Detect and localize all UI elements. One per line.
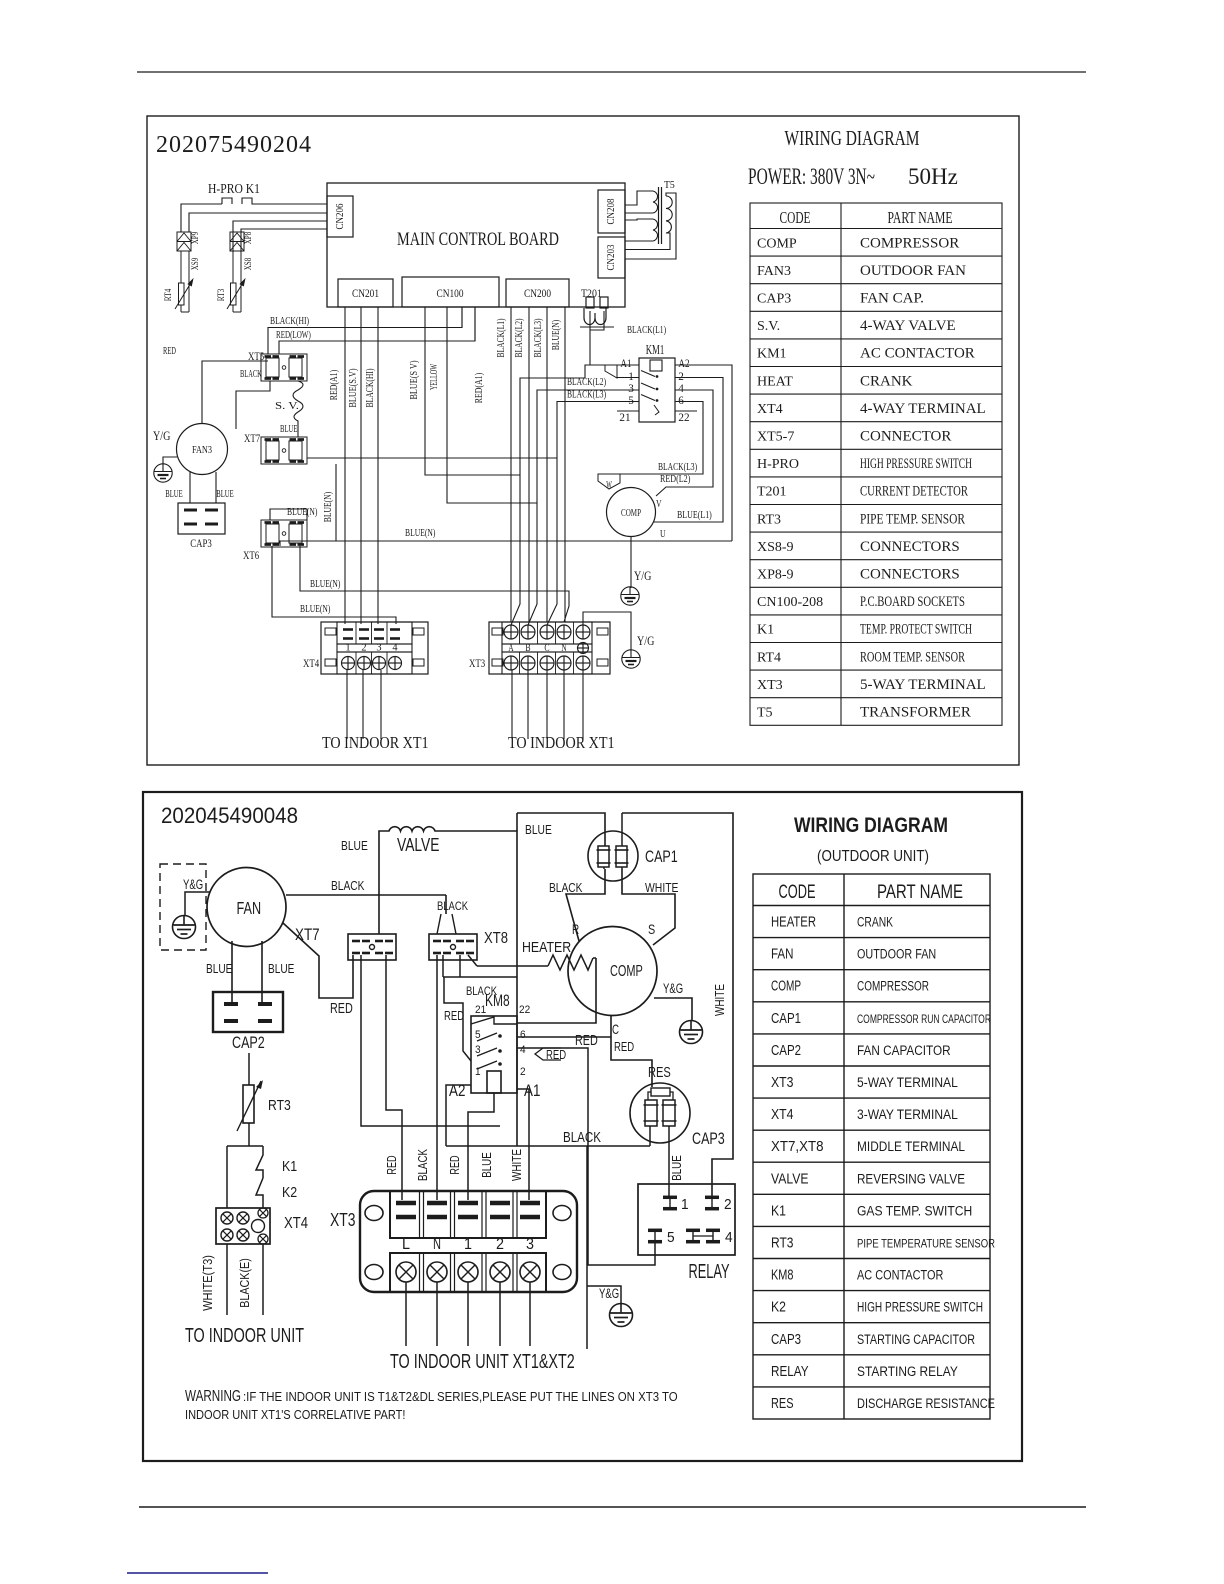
svg-text:RT3: RT3 bbox=[757, 512, 781, 527]
svg-text:BLACK(E): BLACK(E) bbox=[237, 1258, 252, 1308]
svg-text:RT3: RT3 bbox=[268, 1097, 291, 1114]
outer border diagram 1 bbox=[147, 116, 1019, 765]
svg-text:S: S bbox=[648, 921, 655, 937]
svg-text:4-WAY TERMINAL: 4-WAY TERMINAL bbox=[860, 401, 986, 417]
svg-text:HIGH PRESSURE SWITCH: HIGH PRESSURE SWITCH bbox=[860, 456, 972, 472]
svg-text:XS8-9: XS8-9 bbox=[757, 540, 794, 555]
svg-text:TO INDOOR XT1: TO INDOOR XT1 bbox=[322, 733, 429, 752]
svg-text:MIDDLE TERMINAL: MIDDLE TERMINAL bbox=[857, 1139, 965, 1154]
wire relay pin2 WHITE riser bbox=[622, 813, 733, 1197]
main control board bbox=[327, 183, 625, 307]
svg-text:RELAY: RELAY bbox=[771, 1364, 809, 1380]
svg-text:FAN CAP.: FAN CAP. bbox=[860, 291, 924, 307]
svg-text:BLACK: BLACK bbox=[549, 880, 583, 895]
svg-text:CN100: CN100 bbox=[437, 286, 464, 300]
svg-text:WIRING DIAGRAM: WIRING DIAGRAM bbox=[794, 814, 948, 837]
pipe temp sensor RT3 bbox=[231, 283, 237, 305]
bottom rule bbox=[139, 1506, 1086, 1508]
svg-text:RED: RED bbox=[447, 1155, 462, 1174]
svg-text:COMP: COMP bbox=[610, 963, 643, 980]
svg-text:Y/G: Y/G bbox=[637, 633, 654, 648]
svg-text:BLUE(S.V): BLUE(S.V) bbox=[348, 368, 359, 407]
svg-text:RT3: RT3 bbox=[771, 1236, 794, 1252]
svg-text:RES: RES bbox=[648, 1064, 671, 1081]
pipe temp sensor RT3 bbox=[248, 1053, 250, 1085]
P.C. board socket CN208 bbox=[598, 190, 625, 233]
svg-text:3: 3 bbox=[376, 642, 382, 654]
svg-text:WARNING: WARNING bbox=[185, 1388, 241, 1405]
compressor run capacitor CAP1 bbox=[588, 831, 638, 881]
svg-text:FAN3: FAN3 bbox=[192, 444, 212, 456]
svg-text:RED(A1): RED(A1) bbox=[329, 369, 340, 400]
svg-text:C: C bbox=[544, 642, 549, 654]
svg-text:XP8: XP8 bbox=[243, 231, 253, 244]
svg-text:XS8: XS8 bbox=[243, 257, 253, 270]
svg-text:KM1: KM1 bbox=[646, 342, 665, 357]
svg-text:H-PRO K1: H-PRO K1 bbox=[208, 181, 260, 196]
svg-text:XT4: XT4 bbox=[303, 656, 319, 670]
svg-text:BLUE(N): BLUE(N) bbox=[551, 319, 562, 350]
svg-text:COMPRESSOR: COMPRESSOR bbox=[857, 979, 929, 994]
protective earth Y&G dashed box bbox=[160, 864, 206, 950]
svg-text:CAP3: CAP3 bbox=[190, 536, 212, 550]
wire CAP1 top bbox=[517, 813, 605, 846]
svg-text:BLUE: BLUE bbox=[206, 962, 232, 976]
svg-text:CAP2: CAP2 bbox=[771, 1043, 801, 1059]
svg-text:XP9: XP9 bbox=[190, 231, 200, 244]
svg-text:BLACK(HI): BLACK(HI) bbox=[270, 316, 309, 327]
svg-text:KM1: KM1 bbox=[757, 347, 787, 362]
compressor COMP bbox=[607, 488, 656, 537]
svg-text:COMP: COMP bbox=[757, 236, 797, 251]
svg-text:COMPRESSOR RUN CAPACITOR: COMPRESSOR RUN CAPACITOR bbox=[857, 1012, 991, 1026]
svg-text:2: 2 bbox=[724, 1196, 732, 1213]
svg-text:OUTDOOR FAN: OUTDOOR FAN bbox=[860, 263, 966, 279]
svg-text:BLACK: BLACK bbox=[415, 1149, 430, 1181]
svg-text:CONNECTORS: CONNECTORS bbox=[860, 567, 960, 583]
svg-text:2: 2 bbox=[361, 642, 366, 654]
svg-text:RED(A1): RED(A1) bbox=[474, 372, 485, 403]
svg-text:BLUE: BLUE bbox=[268, 962, 294, 976]
svg-text:WHITE: WHITE bbox=[712, 984, 727, 1016]
svg-text:ROOM TEMP. SENSOR: ROOM TEMP. SENSOR bbox=[860, 649, 965, 665]
svg-text:U: U bbox=[660, 528, 666, 540]
svg-text:Y&G: Y&G bbox=[599, 1286, 619, 1301]
svg-text:RED: RED bbox=[163, 346, 176, 357]
svg-text:TO INDOOR UNIT XT1&XT2: TO INDOOR UNIT XT1&XT2 bbox=[390, 1351, 575, 1373]
svg-text:BLUE: BLUE bbox=[216, 489, 233, 500]
svg-text:K1: K1 bbox=[282, 1158, 297, 1175]
svg-text:RED(LOW): RED(LOW) bbox=[276, 330, 311, 341]
svg-text:CURRENT DETECTOR: CURRENT DETECTOR bbox=[860, 484, 968, 500]
svg-text:Y/G: Y/G bbox=[634, 568, 651, 583]
room temp sensor RT4 bbox=[179, 283, 185, 305]
svg-text:INDOOR UNIT XT1'S CORRELATIVE: INDOOR UNIT XT1'S CORRELATIVE PART! bbox=[185, 1407, 406, 1422]
wire T201 leads bbox=[589, 311, 591, 365]
wire valve left to XT7 bbox=[379, 831, 387, 934]
svg-text:FAN: FAN bbox=[771, 947, 794, 963]
svg-text:RED: RED bbox=[384, 1155, 399, 1174]
svg-text:2: 2 bbox=[496, 1236, 504, 1253]
svg-text:RED: RED bbox=[330, 1000, 353, 1017]
svg-text:BLACK(L1): BLACK(L1) bbox=[496, 318, 507, 357]
svg-text:YELLOW: YELLOW bbox=[429, 364, 440, 390]
svg-text:K2: K2 bbox=[282, 1184, 297, 1201]
svg-text:CAP2: CAP2 bbox=[232, 1033, 265, 1052]
svg-text:XT5-7: XT5-7 bbox=[757, 430, 794, 445]
svg-text:5-WAY TERMINAL: 5-WAY TERMINAL bbox=[860, 677, 986, 693]
svg-text:N: N bbox=[561, 642, 566, 654]
svg-text:C: C bbox=[612, 1021, 619, 1037]
svg-text:BLUE: BLUE bbox=[341, 838, 368, 853]
svg-text:K1: K1 bbox=[757, 623, 774, 638]
fan motor FAN3 bbox=[177, 424, 228, 475]
svg-text:4-WAY VALVE: 4-WAY VALVE bbox=[860, 318, 956, 334]
svg-text:PIPE TEMPERATURE SENSOR: PIPE TEMPERATURE SENSOR bbox=[857, 1237, 995, 1251]
svg-text:XS9: XS9 bbox=[190, 257, 200, 270]
svg-text:3-WAY TERMINAL: 3-WAY TERMINAL bbox=[857, 1107, 958, 1122]
svg-text:RT4: RT4 bbox=[163, 288, 173, 301]
svg-text:XT7: XT7 bbox=[295, 925, 320, 944]
svg-text:CN201: CN201 bbox=[352, 286, 379, 300]
connector XP8/XS8 bbox=[233, 221, 327, 252]
svg-text:GAS TEMP. SWITCH: GAS TEMP. SWITCH bbox=[857, 1203, 972, 1218]
svg-text:XT4: XT4 bbox=[771, 1107, 794, 1123]
W terminal flag bbox=[598, 474, 620, 489]
svg-text:3: 3 bbox=[526, 1236, 534, 1253]
wires below XT7 bbox=[361, 955, 500, 1126]
wire XT8 pin4 to heater bbox=[468, 955, 477, 966]
svg-text:CAP1: CAP1 bbox=[771, 1011, 801, 1027]
svg-text:WHITE: WHITE bbox=[645, 880, 679, 895]
parts table 1 bbox=[750, 203, 1002, 725]
svg-text:CRANK: CRANK bbox=[857, 915, 893, 930]
svg-text:REVERSING VALVE: REVERSING VALVE bbox=[857, 1171, 965, 1186]
svg-text:CN206: CN206 bbox=[334, 203, 346, 229]
svg-text:BLACK(L3): BLACK(L3) bbox=[658, 462, 697, 473]
svg-text:50Hz: 50Hz bbox=[908, 164, 958, 189]
svg-text:BLACK(L3): BLACK(L3) bbox=[533, 318, 544, 357]
svg-text:BLACK: BLACK bbox=[563, 1129, 601, 1146]
svg-text:A1: A1 bbox=[620, 356, 631, 370]
svg-text:22: 22 bbox=[519, 1004, 530, 1016]
svg-text:BLUE(N): BLUE(N) bbox=[323, 491, 334, 522]
svg-text:KM8: KM8 bbox=[485, 991, 510, 1010]
svg-text:1: 1 bbox=[681, 1196, 689, 1213]
fan motor FAN bbox=[207, 868, 286, 947]
KM1 right side wires bbox=[675, 365, 732, 541]
wire KM8 A2 to BLACK bbox=[446, 1085, 471, 1146]
svg-text:XT7,XT8: XT7,XT8 bbox=[771, 1139, 824, 1155]
wire T201 to A1 and XT3 A bbox=[511, 365, 639, 625]
svg-text:21: 21 bbox=[475, 1004, 486, 1016]
P.C. board socket CN203 bbox=[598, 237, 625, 278]
svg-text:XT4: XT4 bbox=[757, 402, 783, 417]
svg-text:202075490204: 202075490204 bbox=[156, 132, 312, 158]
svg-text:BLACK: BLACK bbox=[240, 369, 262, 380]
svg-text:COMP: COMP bbox=[771, 979, 801, 995]
svg-text:BLACK: BLACK bbox=[331, 878, 365, 893]
svg-text:22: 22 bbox=[678, 410, 689, 424]
svg-text:TO INDOOR UNIT: TO INDOOR UNIT bbox=[185, 1325, 304, 1347]
footnote blue line bbox=[127, 1572, 268, 1574]
wire KM8 A1 down bbox=[517, 1089, 529, 1200]
svg-text:WHITE(T3): WHITE(T3) bbox=[200, 1255, 215, 1311]
svg-text:T201: T201 bbox=[581, 286, 602, 300]
svg-text:FAN3: FAN3 bbox=[757, 264, 791, 279]
svg-text:BLACK: BLACK bbox=[437, 899, 468, 913]
svg-text:XT8: XT8 bbox=[484, 930, 508, 947]
svg-text:VALVE: VALVE bbox=[771, 1171, 809, 1187]
svg-text:A1: A1 bbox=[524, 1081, 540, 1100]
wire KM8 6 to COMP C bbox=[517, 1036, 611, 1038]
svg-text:5: 5 bbox=[667, 1229, 675, 1246]
svg-text:RED: RED bbox=[614, 1039, 634, 1054]
svg-text:A2: A2 bbox=[678, 356, 689, 370]
svg-text:Y/G: Y/G bbox=[153, 428, 170, 443]
svg-text:PIPE TEMP. SENSOR: PIPE TEMP. SENSOR bbox=[860, 511, 965, 527]
svg-text:BLUE(N): BLUE(N) bbox=[300, 604, 331, 615]
svg-text:BLACK(L3): BLACK(L3) bbox=[567, 390, 606, 401]
svg-text:2: 2 bbox=[520, 1066, 526, 1078]
P.C. board socket CN200 bbox=[506, 279, 569, 307]
svg-text:COMP: COMP bbox=[621, 507, 641, 519]
svg-text:HEATER: HEATER bbox=[771, 915, 816, 931]
svg-text:CONNECTOR: CONNECTOR bbox=[860, 429, 951, 445]
svg-text:L: L bbox=[402, 1236, 410, 1253]
svg-text:V: V bbox=[656, 498, 662, 510]
ground near XT3 bbox=[583, 612, 631, 650]
svg-text:CAP3: CAP3 bbox=[692, 1129, 725, 1148]
svg-text:P.C.BOARD SOCKETS: P.C.BOARD SOCKETS bbox=[860, 594, 965, 610]
svg-text:BLACK(L2): BLACK(L2) bbox=[514, 318, 525, 357]
svg-text:RELAY: RELAY bbox=[689, 1261, 730, 1283]
svg-text:RED(L2): RED(L2) bbox=[660, 474, 691, 485]
fan capacitor CAP3 bbox=[178, 503, 225, 534]
svg-text:XP8-9: XP8-9 bbox=[757, 568, 794, 583]
wire KM1 pin3 BLACK(L2) bbox=[528, 390, 639, 625]
svg-text:CODE: CODE bbox=[779, 882, 816, 903]
svg-text:K1: K1 bbox=[771, 1203, 786, 1219]
svg-text:1: 1 bbox=[464, 1236, 472, 1253]
svg-text:6: 6 bbox=[678, 393, 684, 407]
svg-text:RT4: RT4 bbox=[757, 650, 781, 665]
svg-text:PART NAME: PART NAME bbox=[877, 882, 963, 903]
starting relay RELAY bbox=[638, 1184, 735, 1255]
svg-text:PART NAME: PART NAME bbox=[888, 208, 953, 227]
svg-text:CN200: CN200 bbox=[524, 286, 551, 300]
wire KM8 22 to heater return bbox=[517, 958, 596, 1023]
svg-text:21: 21 bbox=[619, 410, 630, 424]
svg-text:VALVE: VALVE bbox=[397, 835, 440, 855]
wires below XT8 bbox=[436, 955, 438, 1200]
svg-text:WIRING DIAGRAM: WIRING DIAGRAM bbox=[785, 126, 920, 150]
svg-text:W: W bbox=[606, 479, 612, 491]
svg-text:BLACK(L2): BLACK(L2) bbox=[567, 377, 606, 388]
svg-text:WHITE: WHITE bbox=[509, 1149, 524, 1181]
svg-text:RES: RES bbox=[771, 1396, 794, 1412]
svg-text:DISCHARGE RESISTANCE: DISCHARGE RESISTANCE bbox=[857, 1396, 995, 1411]
svg-text:XT4: XT4 bbox=[284, 1215, 308, 1232]
top rule bbox=[137, 71, 1086, 73]
svg-text:COMPRESSOR: COMPRESSOR bbox=[860, 235, 959, 251]
svg-text:5: 5 bbox=[628, 393, 634, 407]
svg-text:T5: T5 bbox=[664, 179, 675, 191]
svg-text:AC CONTACTOR: AC CONTACTOR bbox=[860, 346, 975, 362]
wire KM1 pin5 BLACK(L3) bbox=[547, 402, 639, 626]
svg-text:BLUE: BLUE bbox=[525, 822, 552, 837]
svg-text:XT3: XT3 bbox=[771, 1075, 794, 1091]
svg-text:T201: T201 bbox=[757, 485, 787, 500]
svg-text:OUTDOOR FAN: OUTDOOR FAN bbox=[857, 947, 936, 962]
svg-text:T5: T5 bbox=[757, 706, 773, 721]
svg-text:5-WAY TERMINAL: 5-WAY TERMINAL bbox=[857, 1075, 958, 1090]
svg-text:CAP3: CAP3 bbox=[771, 1332, 801, 1348]
svg-text:BLACK(HI): BLACK(HI) bbox=[365, 368, 376, 407]
svg-text:1: 1 bbox=[345, 642, 350, 654]
CAP1 leads bbox=[566, 869, 605, 941]
outer border diagram 2 bbox=[143, 792, 1022, 1461]
svg-text:S.V.: S.V. bbox=[757, 319, 780, 334]
svg-text:CAP3: CAP3 bbox=[757, 292, 791, 307]
svg-text:MAIN CONTROL BOARD: MAIN CONTROL BOARD bbox=[397, 229, 559, 250]
parts table 2 bbox=[753, 874, 990, 1419]
fan capacitor CAP2 bbox=[213, 992, 283, 1032]
svg-text:XT7: XT7 bbox=[244, 431, 260, 445]
compressor COMP bbox=[568, 927, 657, 1016]
wire XT7 to XT3 C bbox=[307, 457, 557, 459]
svg-text:XT3: XT3 bbox=[469, 656, 485, 670]
svg-text:CN208: CN208 bbox=[605, 198, 617, 224]
svg-text:4: 4 bbox=[725, 1229, 733, 1246]
svg-text:KM8: KM8 bbox=[771, 1268, 794, 1284]
wires below XT4 bbox=[226, 1244, 228, 1315]
svg-text:BLUE(L1): BLUE(L1) bbox=[677, 510, 712, 521]
svg-text:CODE: CODE bbox=[780, 208, 811, 227]
svg-text:A2: A2 bbox=[449, 1081, 465, 1100]
svg-text:XT3: XT3 bbox=[757, 678, 783, 693]
svg-text:TRANSFORMER: TRANSFORMER bbox=[860, 705, 971, 721]
wires below XT3 bbox=[511, 670, 513, 739]
svg-text:RED: RED bbox=[546, 1047, 566, 1062]
svg-text:HIGH PRESSURE SWITCH: HIGH PRESSURE SWITCH bbox=[857, 1300, 983, 1315]
svg-text:XT3: XT3 bbox=[330, 1210, 356, 1230]
svg-text:AC CONTACTOR: AC CONTACTOR bbox=[857, 1268, 944, 1283]
svg-text:CN203: CN203 bbox=[605, 244, 617, 270]
connector XP9/XS9 bbox=[177, 232, 191, 242]
svg-text:A: A bbox=[508, 642, 513, 654]
svg-text:TEMP. PROTECT SWITCH: TEMP. PROTECT SWITCH bbox=[860, 622, 972, 638]
svg-text:FAN CAPACITOR: FAN CAPACITOR bbox=[857, 1043, 951, 1058]
svg-text:Y&G: Y&G bbox=[663, 981, 683, 996]
svg-text:BLUE: BLUE bbox=[280, 424, 297, 435]
svg-text:FAN: FAN bbox=[237, 898, 262, 918]
svg-text:BLUE: BLUE bbox=[165, 489, 182, 500]
svg-text:H-PRO: H-PRO bbox=[757, 457, 799, 472]
svg-text:4: 4 bbox=[520, 1044, 526, 1056]
svg-text:4: 4 bbox=[392, 642, 398, 654]
3-way terminal XT4 bbox=[216, 1208, 270, 1244]
svg-text::IF THE INDOOR UNIT IS T1&T2&D: :IF THE INDOOR UNIT IS T1&T2&DL SERIES,P… bbox=[243, 1389, 678, 1404]
svg-text:POWER: 380V 3N~: POWER: 380V 3N~ bbox=[748, 164, 875, 189]
svg-text:B: B bbox=[525, 642, 530, 654]
svg-text:CONNECTORS: CONNECTORS bbox=[860, 539, 960, 555]
svg-text:TO INDOOR XT1: TO INDOOR XT1 bbox=[508, 733, 615, 752]
svg-text:XT6: XT6 bbox=[243, 548, 259, 562]
svg-text:RED: RED bbox=[444, 1008, 464, 1023]
svg-text:BLUE: BLUE bbox=[669, 1155, 684, 1181]
wire to XT4 left bbox=[226, 1146, 228, 1208]
svg-text:BLUE: BLUE bbox=[479, 1152, 494, 1178]
svg-text:BLUE(N): BLUE(N) bbox=[310, 579, 341, 590]
svg-text:RT3: RT3 bbox=[216, 288, 226, 301]
P.C. board socket CN206 bbox=[327, 196, 353, 237]
svg-text:CRANK: CRANK bbox=[860, 373, 913, 389]
svg-text:(OUTDOOR UNIT): (OUTDOOR UNIT) bbox=[817, 848, 929, 865]
svg-text:BLUE(S V): BLUE(S V) bbox=[409, 360, 420, 399]
svg-text:BLUE(N): BLUE(N) bbox=[405, 528, 436, 539]
svg-text:RED: RED bbox=[575, 1032, 598, 1049]
svg-text:N: N bbox=[433, 1236, 441, 1253]
wires below XT4 bbox=[346, 670, 348, 739]
wires down to XT3 bbox=[468, 1093, 494, 1200]
svg-text:202045490048: 202045490048 bbox=[161, 803, 298, 828]
svg-text:STARTING RELAY: STARTING RELAY bbox=[857, 1364, 958, 1379]
svg-text:STARTING CAPACITOR: STARTING CAPACITOR bbox=[857, 1332, 975, 1347]
wires below XT3 bbox=[405, 1282, 407, 1346]
svg-text:Y&G: Y&G bbox=[183, 877, 203, 892]
svg-text:CN100-208: CN100-208 bbox=[757, 595, 823, 610]
svg-text:BLACK(L1): BLACK(L1) bbox=[627, 325, 666, 336]
svg-text:HEAT: HEAT bbox=[757, 374, 793, 389]
table 1 bbox=[750, 203, 1002, 725]
svg-text:CAP1: CAP1 bbox=[645, 847, 678, 866]
P.C. board socket CN201 bbox=[338, 279, 393, 307]
table 2 bbox=[753, 874, 995, 1419]
svg-text:HEATER: HEATER bbox=[522, 940, 571, 956]
svg-text:S. V.: S. V. bbox=[275, 400, 299, 412]
svg-text:6: 6 bbox=[520, 1029, 526, 1041]
svg-text:K2: K2 bbox=[771, 1300, 786, 1316]
P.C. board socket CN100 bbox=[402, 277, 499, 307]
